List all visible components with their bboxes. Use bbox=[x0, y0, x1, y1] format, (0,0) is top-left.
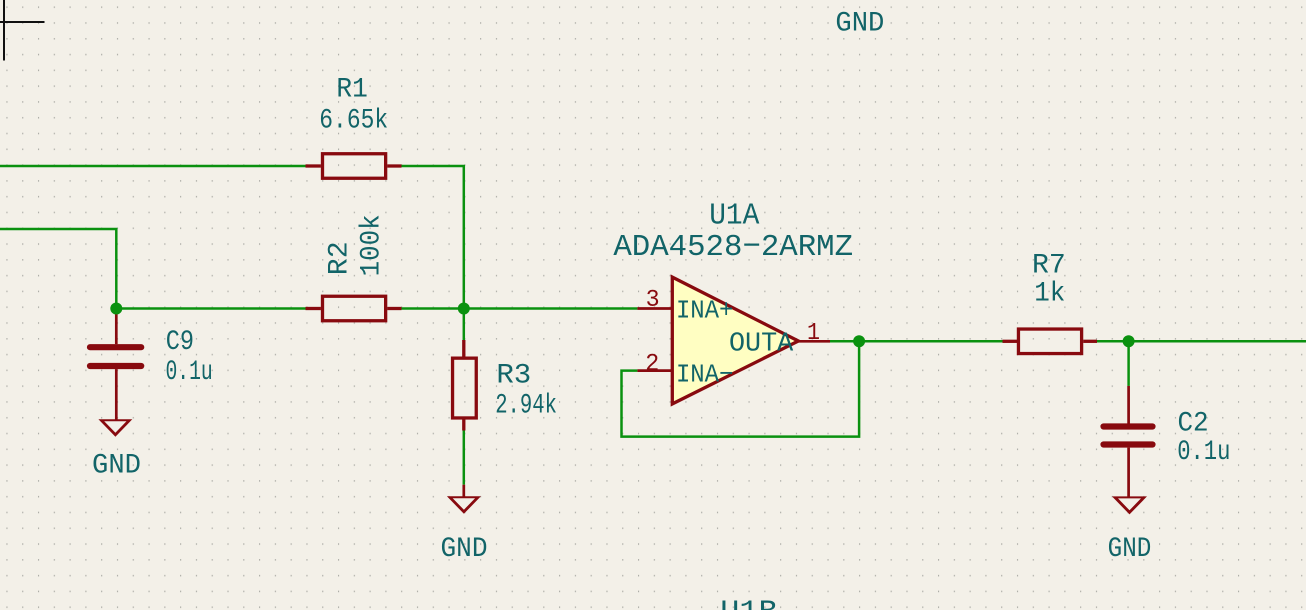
svg-text:U1B: U1B bbox=[720, 596, 777, 610]
U1A pin 1 output stub bbox=[798, 340, 830, 343]
wire trunk node to op-amp pin 3 bbox=[464, 307, 638, 310]
svg-text:GND: GND bbox=[835, 9, 884, 40]
wire trunk node down to R3 top bbox=[463, 309, 466, 341]
U1A pin 2 stub bbox=[637, 369, 672, 372]
svg-text:2.94k: 2.94k bbox=[495, 391, 557, 422]
capacitor C2 bbox=[1104, 386, 1153, 498]
svg-text:C2: C2 bbox=[1177, 408, 1208, 439]
wire node B to right edge bbox=[1129, 340, 1306, 343]
svg-text:INA+: INA+ bbox=[676, 296, 734, 326]
svg-text:R2: R2 bbox=[325, 241, 356, 275]
resistor R7 bbox=[1003, 329, 1098, 354]
svg-text:R3: R3 bbox=[496, 361, 531, 392]
junction node A (C9/R2) bbox=[110, 303, 122, 315]
svg-text:1: 1 bbox=[807, 320, 820, 347]
svg-text:3: 3 bbox=[646, 287, 660, 314]
junction trunk node (R1/R2/R3/pin3) bbox=[458, 303, 470, 315]
U1A pin 3 stub bbox=[637, 307, 672, 310]
wire feedback loop output node to pin 2 bbox=[622, 341, 860, 436]
svg-text:C9: C9 bbox=[166, 327, 194, 358]
capacitor C9 bbox=[90, 309, 141, 421]
svg-text:GND: GND bbox=[92, 451, 141, 482]
wire R7 right to node B bbox=[1096, 340, 1128, 343]
junction node B (R7/C2) bbox=[1123, 335, 1135, 347]
junction output node (pin1/feedback/R7) bbox=[853, 335, 865, 347]
op-amp U1A triangle body bbox=[672, 277, 798, 404]
svg-text:GND: GND bbox=[1108, 534, 1152, 565]
svg-text:1k: 1k bbox=[1034, 279, 1065, 310]
wire R1 right down to trunk node bbox=[400, 166, 464, 309]
wire node A to R2 left bbox=[116, 307, 307, 310]
ground symbol below R3 bbox=[447, 485, 481, 514]
svg-text:ADA4528−2ARMZ: ADA4528−2ARMZ bbox=[613, 230, 853, 265]
resistor R1 bbox=[306, 154, 402, 179]
svg-text:R1: R1 bbox=[336, 75, 367, 106]
ground symbol below C2 bbox=[1112, 496, 1147, 514]
wire input net to R1 left bbox=[0, 165, 308, 168]
svg-text:0.1u: 0.1u bbox=[1177, 437, 1230, 468]
svg-text:R7: R7 bbox=[1032, 250, 1066, 281]
svg-text:0.1u: 0.1u bbox=[165, 357, 212, 388]
sheet origin crosshair bbox=[0, 0, 45, 61]
wire node B down to C2 bbox=[1127, 341, 1130, 386]
svg-text:INA−: INA− bbox=[676, 359, 734, 389]
resistor R3 bbox=[453, 340, 477, 431]
svg-text:2: 2 bbox=[645, 351, 659, 378]
wire second input net to node A bbox=[0, 229, 116, 309]
wire R2 right to trunk node bbox=[401, 307, 464, 310]
svg-text:100k: 100k bbox=[357, 214, 388, 276]
resistor R2 bbox=[306, 296, 402, 321]
svg-text:OUTA: OUTA bbox=[729, 329, 794, 359]
svg-text:U1A: U1A bbox=[709, 199, 760, 234]
wire op-amp output to output node bbox=[828, 340, 859, 343]
ground symbol below C9 bbox=[98, 419, 132, 437]
svg-text:GND: GND bbox=[440, 534, 487, 565]
wire R3 bottom to ground bbox=[463, 430, 466, 485]
svg-text:6.65k: 6.65k bbox=[319, 106, 388, 137]
wire output node to R7 left bbox=[859, 340, 1004, 343]
